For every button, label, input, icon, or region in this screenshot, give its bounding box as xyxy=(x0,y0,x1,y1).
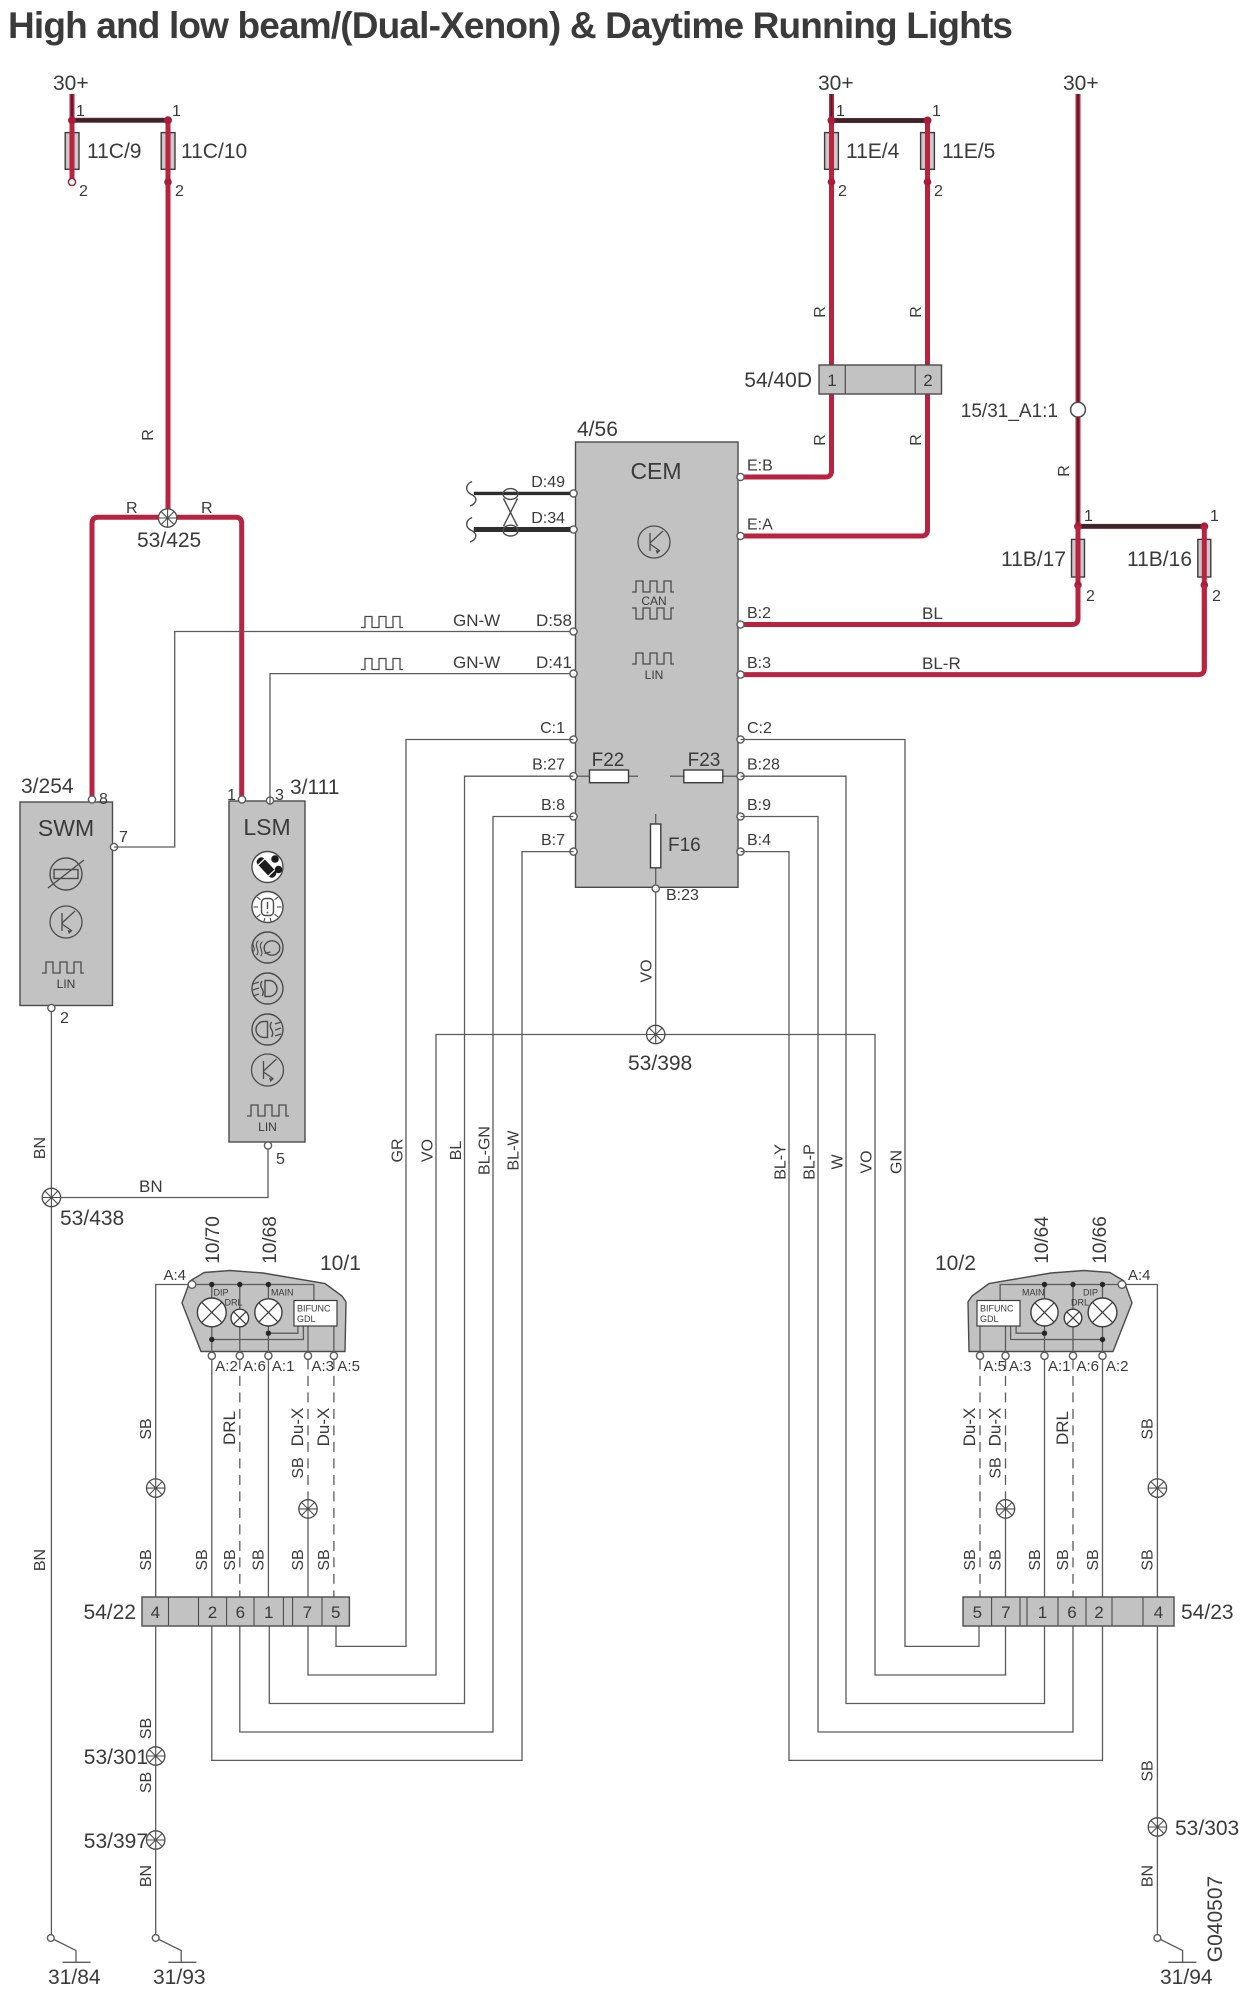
svg-text:4: 4 xyxy=(151,1603,160,1622)
svg-text:6: 6 xyxy=(236,1603,245,1622)
junction dot 11B/16 pin1 xyxy=(1200,522,1208,530)
svg-text:W: W xyxy=(830,1154,847,1170)
pin B:8 CEM xyxy=(570,813,577,820)
ground 31/84 xyxy=(47,1935,54,1942)
svg-text:1: 1 xyxy=(1084,508,1093,525)
wire VO 53/398 left arm to 54/22 pin7 xyxy=(308,1035,656,1676)
svg-text:BL-GN: BL-GN xyxy=(477,1126,494,1175)
wire VO B:23 to 53/398 xyxy=(655,892,657,1035)
wire bus 11C/9 pin1 to 11C/10 pin1 xyxy=(72,118,168,123)
headlamp unit 10/1 xyxy=(182,1271,346,1352)
svg-text:D:34: D:34 xyxy=(531,510,565,527)
wire stems A:3 A:5 xyxy=(308,1326,334,1352)
wire A:2 to 54/22 pin2 xyxy=(211,1359,213,1597)
svg-text:BL-P: BL-P xyxy=(802,1144,819,1180)
wire stem DIP bulb 10/2 xyxy=(1102,1285,1104,1353)
wire Du-X A:5 to 54/22 pin5 xyxy=(333,1359,335,1597)
svg-text:F22: F22 xyxy=(592,750,625,771)
splice on right A:4 column xyxy=(1148,1479,1166,1497)
svg-text:11B/17: 11B/17 xyxy=(1001,548,1066,571)
wire LSM pin3 to CEM D:41 xyxy=(270,674,571,804)
svg-text:GR: GR xyxy=(390,1139,407,1163)
svg-text:5: 5 xyxy=(276,1151,285,1168)
icon CAN waves xyxy=(632,581,674,592)
svg-text:1: 1 xyxy=(836,103,845,120)
svg-text:B:23: B:23 xyxy=(666,887,699,904)
op unit SWM 3/254 xyxy=(20,802,113,1006)
wire stem MAIN bulb xyxy=(267,1285,269,1353)
svg-text:5: 5 xyxy=(973,1603,982,1622)
svg-text:Du-X: Du-X xyxy=(986,1408,1005,1447)
svg-text:15/31_A1:1: 15/31_A1:1 xyxy=(961,401,1058,422)
svg-text:2: 2 xyxy=(838,183,847,200)
svg-text:10/68: 10/68 xyxy=(260,1216,281,1264)
pin C:1 CEM xyxy=(570,736,577,743)
svg-text:SB: SB xyxy=(1140,1549,1157,1570)
junction dot 11C/10 pin1 xyxy=(164,116,172,124)
svg-text:2: 2 xyxy=(934,183,943,200)
wire stem DIP bulb xyxy=(211,1285,213,1353)
wire BN LSM pin5 to 53/438 xyxy=(51,1149,268,1198)
pin E:A CEM xyxy=(737,532,744,539)
wire BL-Y B:4 to 54/23 pin2 xyxy=(741,852,1103,1761)
svg-text:1: 1 xyxy=(172,103,181,120)
ground 31/93 xyxy=(152,1935,159,1942)
svg-text:LIN: LIN xyxy=(645,668,664,682)
svg-text:A:3: A:3 xyxy=(1009,1358,1032,1375)
wire 11B/17 down xyxy=(1076,526,1081,618)
wire A:2 to 54/23 pin2 xyxy=(1102,1359,1104,1597)
wire 11B/16 down xyxy=(1202,526,1207,668)
svg-text:R: R xyxy=(812,306,829,318)
junction 53/301 xyxy=(147,1747,165,1765)
svg-text:A:2: A:2 xyxy=(215,1358,238,1375)
svg-text:VO: VO xyxy=(420,1139,437,1162)
wire 30+ to 15/31_A1:1 xyxy=(1076,94,1081,403)
svg-text:7: 7 xyxy=(1001,1603,1010,1622)
pin A:1 10/2 xyxy=(1041,1352,1048,1359)
svg-text:MAIN: MAIN xyxy=(1022,1288,1045,1298)
svg-text:53/303: 53/303 xyxy=(1175,1817,1239,1840)
svg-text:DIP: DIP xyxy=(1083,1288,1098,1298)
svg-text:54/22: 54/22 xyxy=(83,1601,136,1624)
wire BN SWM pin2 to ground 31/84 xyxy=(50,1012,52,1936)
svg-text:B:3: B:3 xyxy=(747,655,771,672)
svg-text:30+: 30+ xyxy=(818,72,854,95)
pin A:6 10/1 xyxy=(236,1352,243,1359)
svg-text:11C/9: 11C/9 xyxy=(87,140,141,163)
svg-text:Du-X: Du-X xyxy=(288,1408,307,1447)
svg-text:GN-W: GN-W xyxy=(453,611,500,630)
svg-text:BL-R: BL-R xyxy=(922,654,961,673)
wire link MAIN to bifunc xyxy=(268,1326,298,1333)
wire stems A:3 A:5 10/2 xyxy=(980,1326,1006,1352)
wire 11C/10 leg down to 53/425 xyxy=(166,120,171,518)
junction 53/438 xyxy=(42,1188,60,1206)
pin A:5 10/2 xyxy=(976,1352,983,1359)
cable break squiggle bottom xyxy=(467,518,476,543)
svg-text:High and low beam/(Dual-Xenon): High and low beam/(Dual-Xenon) & Daytime… xyxy=(8,5,1013,46)
pin B:23 CEM xyxy=(652,885,659,892)
pin 2 terminal 11C/9 xyxy=(68,178,75,185)
svg-text:SB: SB xyxy=(1027,1549,1044,1570)
svg-text:CAN: CAN xyxy=(641,594,666,608)
svg-text:A:4: A:4 xyxy=(163,1267,186,1284)
wire 54/23 pin4 to ground 31/94 xyxy=(1156,1626,1158,1936)
svg-text:3/254: 3/254 xyxy=(21,775,74,798)
fuse F23 xyxy=(670,775,684,777)
svg-text:A:2: A:2 xyxy=(1106,1358,1129,1375)
wire link DIP to bifunc 10/2 xyxy=(1011,1326,1103,1340)
pin A:4 10/1 xyxy=(188,1281,196,1289)
svg-text:BIFUNC: BIFUNC xyxy=(980,1304,1014,1314)
svg-text:54/40D: 54/40D xyxy=(744,369,812,392)
control unit LSM 3/111 xyxy=(229,801,305,1142)
svg-text:1: 1 xyxy=(932,103,941,120)
junction dots 10/2 xyxy=(1100,1282,1105,1287)
svg-text:LIN: LIN xyxy=(258,1120,277,1134)
svg-text:A:4: A:4 xyxy=(1128,1267,1151,1284)
icon transistor CEM xyxy=(638,526,670,558)
svg-text:2: 2 xyxy=(1086,588,1095,605)
pin A:2 10/2 xyxy=(1099,1352,1106,1359)
svg-text:Du-X: Du-X xyxy=(960,1408,979,1447)
svg-text:2: 2 xyxy=(1094,1603,1103,1622)
svg-text:G040507: G040507 xyxy=(1204,1876,1227,1962)
junction dot 11E/5 pin1 xyxy=(924,117,932,125)
svg-text:GDL: GDL xyxy=(297,1314,316,1324)
wire 15/31_A1:1 to 11B fuses xyxy=(1076,417,1081,526)
wire stem DRL bulb 10/2 xyxy=(1072,1285,1074,1353)
svg-text:SB: SB xyxy=(194,1549,211,1570)
svg-text:2: 2 xyxy=(1212,588,1221,605)
pin E:B CEM xyxy=(737,473,744,480)
pin 3 LSM xyxy=(266,797,273,804)
pin 2 dot 11E/4 xyxy=(828,178,836,186)
pin B:28 CEM xyxy=(737,773,744,780)
svg-text:E:B: E:B xyxy=(747,458,773,475)
svg-text:B:28: B:28 xyxy=(747,757,780,774)
icon LIN wave LSM xyxy=(247,1105,289,1116)
wire BL-W B:7 to 54/22 pin2 xyxy=(212,852,574,1761)
svg-text:SB: SB xyxy=(962,1549,979,1570)
svg-text:GDL: GDL xyxy=(980,1314,999,1324)
svg-text:53/438: 53/438 xyxy=(60,1207,124,1230)
svg-text:30+: 30+ xyxy=(53,72,89,95)
svg-text:1: 1 xyxy=(827,371,836,390)
svg-text:5: 5 xyxy=(331,1603,340,1622)
svg-text:10/70: 10/70 xyxy=(203,1216,224,1264)
svg-text:GN-W: GN-W xyxy=(453,653,500,672)
svg-text:SB: SB xyxy=(138,1718,155,1739)
wire rail top 10/2 xyxy=(1000,1285,1122,1301)
svg-text:LIN: LIN xyxy=(57,977,76,991)
wire link MAIN to bifunc 10/2 xyxy=(1016,1326,1044,1333)
bulb DIP 10/2 xyxy=(1088,1298,1117,1327)
junction dot 11E/4 pin1 xyxy=(828,117,836,125)
wire rail top 10/1 xyxy=(192,1285,314,1301)
svg-text:D:41: D:41 xyxy=(536,653,572,672)
fuse 11C/9 xyxy=(65,133,79,170)
fuse 11C/10 xyxy=(161,133,175,170)
bulb MAIN 10/2 xyxy=(1031,1299,1058,1326)
pin 8 SWM xyxy=(88,796,95,803)
wire stem DRL bulb xyxy=(239,1285,241,1353)
svg-text:11E/5: 11E/5 xyxy=(942,140,995,163)
icon transistor SWM xyxy=(50,906,82,938)
svg-text:A:3: A:3 xyxy=(312,1358,335,1375)
wire 54/22 pin4 to ground 31/93 xyxy=(155,1626,157,1936)
svg-text:R: R xyxy=(908,434,925,446)
pin D:49 CEM xyxy=(570,490,577,497)
wire A:1 to 54/23 pin1 xyxy=(1044,1359,1046,1597)
pin 2 dot 11C/10 xyxy=(164,178,172,186)
svg-text:6: 6 xyxy=(1067,1603,1076,1622)
svg-text:DRL: DRL xyxy=(1053,1411,1072,1445)
svg-text:2: 2 xyxy=(60,1010,69,1027)
svg-text:11B/16: 11B/16 xyxy=(1127,548,1192,571)
svg-text:7: 7 xyxy=(303,1603,312,1622)
pin B:27 CEM xyxy=(570,773,577,780)
svg-text:1: 1 xyxy=(1038,1603,1047,1622)
svg-text:SB: SB xyxy=(1055,1549,1072,1570)
twist symbol xyxy=(503,489,518,500)
wire GN C:2 to 54/23 pin5 xyxy=(741,740,980,1647)
svg-text:BN: BN xyxy=(139,1177,163,1196)
svg-text:R: R xyxy=(126,500,138,517)
wire BL-R 11B/16 to CEM B:3 xyxy=(741,585,1204,675)
wire 30+ to 11C/9 xyxy=(70,94,75,182)
connector 54/22 xyxy=(142,1597,349,1626)
icon dimmer xyxy=(252,892,283,923)
svg-text:11E/4: 11E/4 xyxy=(846,140,900,163)
svg-text:A:6: A:6 xyxy=(1077,1358,1100,1375)
pin D:58 CEM xyxy=(570,628,577,635)
svg-text:B:2: B:2 xyxy=(747,605,771,622)
svg-text:4/56: 4/56 xyxy=(577,418,618,441)
svg-text:BN: BN xyxy=(1140,1865,1157,1887)
icon square wave on D:58 wire xyxy=(361,617,403,628)
pin A:6 10/2 xyxy=(1069,1352,1076,1359)
wire A:4 to 54/22 pin4 xyxy=(156,1285,189,1598)
svg-text:1: 1 xyxy=(264,1603,273,1622)
junction 53/397 xyxy=(147,1831,165,1849)
svg-text:BN: BN xyxy=(138,1865,155,1887)
svg-text:SB: SB xyxy=(290,1549,307,1570)
svg-text:BL-Y: BL-Y xyxy=(773,1144,790,1180)
svg-text:31/94: 31/94 xyxy=(1160,1966,1213,1989)
wire 11E/5 to CEM E:A xyxy=(741,121,928,537)
svg-text:SB: SB xyxy=(1140,1760,1157,1781)
svg-text:1: 1 xyxy=(76,103,85,120)
wire DRL A:6 to 54/22 pin6 xyxy=(239,1359,241,1597)
fuse 11E/4 xyxy=(825,133,839,170)
svg-text:R: R xyxy=(812,434,829,446)
pin 7 SWM xyxy=(110,843,117,850)
svg-text:BL: BL xyxy=(448,1141,465,1161)
wire A:1 to 54/22 pin1 xyxy=(267,1359,269,1597)
wire Du-X A:3 to 54/23 pin7 xyxy=(1005,1359,1007,1499)
svg-text:LSM: LSM xyxy=(243,814,290,840)
pin C:2 CEM xyxy=(737,736,744,743)
svg-text:B:9: B:9 xyxy=(747,797,771,814)
wire red bus 53/425 to SWM pin8 and LSM pin1 xyxy=(92,517,242,798)
svg-text:BIFUNC: BIFUNC xyxy=(297,1304,331,1314)
wire BL B:27 to 54/22 pin1 xyxy=(269,776,573,1703)
pin D:34 CEM xyxy=(570,526,577,533)
junction dot 11B/17 pin1 xyxy=(1074,522,1082,530)
svg-text:SB: SB xyxy=(290,1457,307,1478)
wire bus 11B/17 pin1 to 11B/16 pin1 xyxy=(1078,524,1204,529)
svg-text:D:49: D:49 xyxy=(531,474,565,491)
wire BL-P B:9 to 54/23 pin6 xyxy=(741,817,1074,1733)
svg-text:A:1: A:1 xyxy=(1048,1358,1071,1375)
svg-text:SB: SB xyxy=(1085,1549,1102,1570)
fuse 11B/17 xyxy=(1072,539,1085,577)
pin A:4 10/2 xyxy=(1118,1281,1126,1289)
wire BL 11B/17 to CEM B:2 xyxy=(741,585,1078,625)
control module CEM 4/56 xyxy=(576,442,739,887)
svg-text:2: 2 xyxy=(923,371,932,390)
svg-text:SB: SB xyxy=(988,1549,1005,1570)
svg-text:1: 1 xyxy=(227,787,236,804)
svg-text:2: 2 xyxy=(79,183,88,200)
svg-text:3: 3 xyxy=(275,787,284,804)
icon LIN wave SWM xyxy=(42,962,84,973)
svg-text:10/2: 10/2 xyxy=(935,1252,976,1275)
svg-text:SB: SB xyxy=(222,1549,239,1570)
svg-text:10/64: 10/64 xyxy=(1032,1216,1053,1264)
wire W B:28 to 54/23 pin1 xyxy=(741,776,1045,1703)
svg-text:2: 2 xyxy=(208,1603,217,1622)
svg-text:F23: F23 xyxy=(688,750,721,771)
svg-text:53/397: 53/397 xyxy=(84,1830,148,1853)
pin A:5 10/1 xyxy=(330,1352,337,1359)
pin B:9 CEM xyxy=(737,813,744,820)
fuse 11E/5 xyxy=(921,133,935,170)
wire Du-X A:3 to 54/22 pin7 xyxy=(307,1359,309,1499)
wire twisted pair D:49 xyxy=(474,492,570,495)
svg-text:10/1: 10/1 xyxy=(320,1252,361,1275)
icon front fog xyxy=(252,973,283,1004)
svg-text:R: R xyxy=(140,429,157,441)
bulb DRL 10/2 xyxy=(1064,1309,1082,1327)
svg-text:BL: BL xyxy=(922,604,943,623)
svg-text:54/23: 54/23 xyxy=(1181,1601,1234,1624)
junction dot 11C/9 pin1 xyxy=(68,116,76,124)
cable break squiggle top xyxy=(467,482,476,507)
svg-text:31/84: 31/84 xyxy=(48,1966,101,1989)
splice on A:3 column xyxy=(299,1500,317,1518)
svg-text:A:5: A:5 xyxy=(984,1358,1007,1375)
junction dots 10/1 xyxy=(209,1282,214,1287)
svg-text:A:6: A:6 xyxy=(243,1358,266,1375)
fuse F22 xyxy=(576,775,590,777)
svg-text:DIP: DIP xyxy=(214,1288,229,1298)
junction 53/398 xyxy=(647,1025,665,1043)
svg-text:30+: 30+ xyxy=(1063,72,1099,95)
pin 1 LSM xyxy=(238,796,245,803)
pin A:3 10/1 xyxy=(304,1352,311,1359)
svg-text:BL-W: BL-W xyxy=(506,1130,523,1171)
svg-text:SB: SB xyxy=(138,1418,155,1439)
svg-text:53/398: 53/398 xyxy=(628,1052,692,1075)
bifunction gdl module 10/1 xyxy=(294,1301,337,1327)
bulb DIP 10/1 xyxy=(197,1298,226,1327)
svg-text:SB: SB xyxy=(138,1549,155,1570)
svg-text:GN: GN xyxy=(889,1150,906,1174)
svg-text:1: 1 xyxy=(1210,508,1219,525)
svg-text:B:8: B:8 xyxy=(541,797,565,814)
svg-text:E:A: E:A xyxy=(747,517,773,534)
icon square wave on D:41 wire xyxy=(361,659,403,670)
svg-text:C:1: C:1 xyxy=(540,720,565,737)
junction 53/425 xyxy=(158,509,176,527)
wire twisted pair D:34 xyxy=(474,527,570,532)
bulb MAIN 10/1 xyxy=(255,1299,282,1326)
wire 30+ to 11E/4 xyxy=(829,94,834,121)
svg-text:SB: SB xyxy=(1140,1418,1157,1439)
splice on A:4 column xyxy=(147,1479,165,1497)
bifunction gdl module 10/2 xyxy=(977,1301,1020,1327)
svg-text:11C/10: 11C/10 xyxy=(181,140,247,163)
svg-text:C:2: C:2 xyxy=(747,720,772,737)
svg-text:B:7: B:7 xyxy=(541,832,565,849)
svg-text:8: 8 xyxy=(99,791,108,808)
wire 11E/4 to CEM E:B xyxy=(741,121,832,478)
svg-text:B:27: B:27 xyxy=(532,757,565,774)
svg-text:A:1: A:1 xyxy=(272,1358,295,1375)
svg-text:SB: SB xyxy=(251,1549,268,1570)
svg-text:F16: F16 xyxy=(668,835,701,856)
wire bus 11E/4 pin1 to 11E/5 pin1 xyxy=(832,118,928,123)
svg-text:BN: BN xyxy=(32,1549,49,1571)
icon headlamp leveling xyxy=(252,932,283,963)
svg-text:D:58: D:58 xyxy=(536,611,572,630)
ground 31/94 xyxy=(1154,1935,1161,1942)
svg-text:B:4: B:4 xyxy=(747,832,771,849)
icon transistor LSM xyxy=(252,1054,284,1086)
svg-text:Du-X: Du-X xyxy=(314,1408,333,1447)
svg-text:3/111: 3/111 xyxy=(290,776,339,799)
svg-text:7: 7 xyxy=(119,829,128,846)
wire stem MAIN bulb 10/2 xyxy=(1044,1285,1046,1353)
fuse 11B/16 xyxy=(1198,539,1211,577)
wire A:4 to 54/23 pin4 xyxy=(1126,1285,1158,1598)
connector 54/23 xyxy=(963,1597,1174,1626)
connector 54/40D xyxy=(819,365,942,394)
wire GR C:1 to 54/22 pin5 xyxy=(336,740,574,1647)
wire DRL A:6 to 54/23 pin6 xyxy=(1072,1359,1074,1597)
svg-text:31/93: 31/93 xyxy=(153,1966,206,1989)
icon light switch xyxy=(252,852,283,883)
pin 5 LSM xyxy=(264,1142,271,1149)
wire Du-X A:5 to 54/23 pin5 xyxy=(979,1359,981,1597)
svg-text:53/301: 53/301 xyxy=(84,1746,148,1769)
pin 2 dot 11B/17 xyxy=(1074,581,1082,589)
wire VO 53/398 right arm to 54/23 pin7 xyxy=(656,1035,1006,1676)
pin A:2 10/1 xyxy=(208,1352,215,1359)
svg-text:VO: VO xyxy=(859,1150,876,1173)
svg-text:4: 4 xyxy=(1154,1603,1163,1622)
svg-text:SWM: SWM xyxy=(38,815,94,841)
splice on right A:3 column xyxy=(996,1500,1014,1518)
svg-text:R: R xyxy=(908,306,925,318)
pin B:4 CEM xyxy=(737,848,744,855)
svg-text:VO: VO xyxy=(639,959,656,982)
icon rheostat xyxy=(50,858,82,890)
svg-text:MAIN: MAIN xyxy=(271,1288,294,1298)
